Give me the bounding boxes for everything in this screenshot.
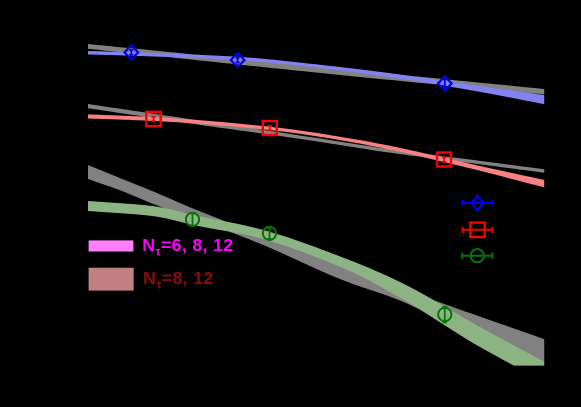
legend swatch magenta band Ntau=6,8,12 xyxy=(89,240,134,251)
error bar xyxy=(129,50,133,55)
grey band 1 (chi2 fit band, top) xyxy=(88,44,544,94)
error bar xyxy=(442,157,446,162)
red square marker xyxy=(146,112,160,126)
red continuum band (middle curve) xyxy=(88,114,544,187)
green continuum band (bottom curve) xyxy=(88,201,544,382)
blue continuum band (top curve) xyxy=(88,51,544,104)
grey band 3 (bottom, wide) xyxy=(88,165,544,362)
red square marker xyxy=(263,121,277,135)
svg-text:Nτ=8, 12: Nτ=8, 12 xyxy=(143,268,214,292)
error bar xyxy=(267,228,272,239)
error bar xyxy=(236,58,240,63)
error bar xyxy=(151,117,155,122)
red square marker xyxy=(437,153,451,167)
green circle marker xyxy=(186,213,199,226)
green circle marker xyxy=(438,308,451,321)
blue diamond marker xyxy=(438,76,452,90)
legend marker green: horizontal error bar + circle xyxy=(462,253,492,259)
blue diamond marker xyxy=(231,53,245,67)
error bar xyxy=(268,126,272,131)
green circle marker xyxy=(263,227,276,240)
legend marker red: horizontal error bar + square xyxy=(463,227,493,233)
legend marker blue: horizontal error bar + diamond xyxy=(462,200,492,206)
blue diamond marker xyxy=(125,45,139,59)
error bar xyxy=(190,213,195,226)
grey band 2 (middle) xyxy=(88,104,544,173)
error bar xyxy=(443,79,447,87)
error bar xyxy=(443,307,448,323)
legend swatch rosybrown band Ntau=8,12 xyxy=(89,268,134,291)
